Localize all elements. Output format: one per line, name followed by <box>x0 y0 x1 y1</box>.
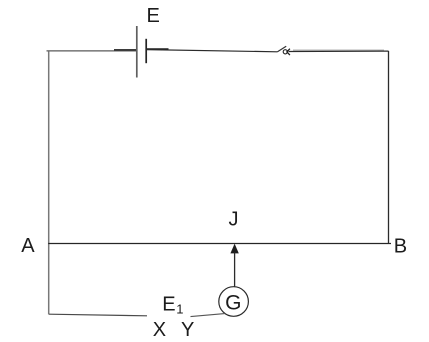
svg-text:1: 1 <box>176 302 183 317</box>
battery E <box>137 26 146 78</box>
label E1 <box>162 294 183 317</box>
wire Y terminal to galvanometer <box>191 314 225 317</box>
jockey arrow at J <box>230 244 238 287</box>
wire left vertical (corner to bottom) <box>48 51 50 314</box>
wire bottom-left (corner to X terminal) <box>49 314 147 316</box>
svg-text:J: J <box>229 208 239 230</box>
switch K (open blade, pivot circle, contact arrow) <box>277 46 290 55</box>
wire top-left (corner to battery) <box>47 50 138 51</box>
svg-text:G: G <box>225 292 241 315</box>
wire switch to top-right corner <box>289 50 389 51</box>
svg-text:Y: Y <box>181 319 194 341</box>
wire battery to switch <box>147 49 277 52</box>
svg-text:E: E <box>162 294 175 316</box>
wire A-B potentiometer wire <box>48 243 391 245</box>
wire right vertical (corner to B) <box>388 51 390 244</box>
svg-text:A: A <box>21 235 35 257</box>
galvanometer G <box>219 287 249 317</box>
svg-text:B: B <box>394 235 407 257</box>
svg-text:E: E <box>147 5 160 27</box>
svg-text:X: X <box>153 319 166 341</box>
